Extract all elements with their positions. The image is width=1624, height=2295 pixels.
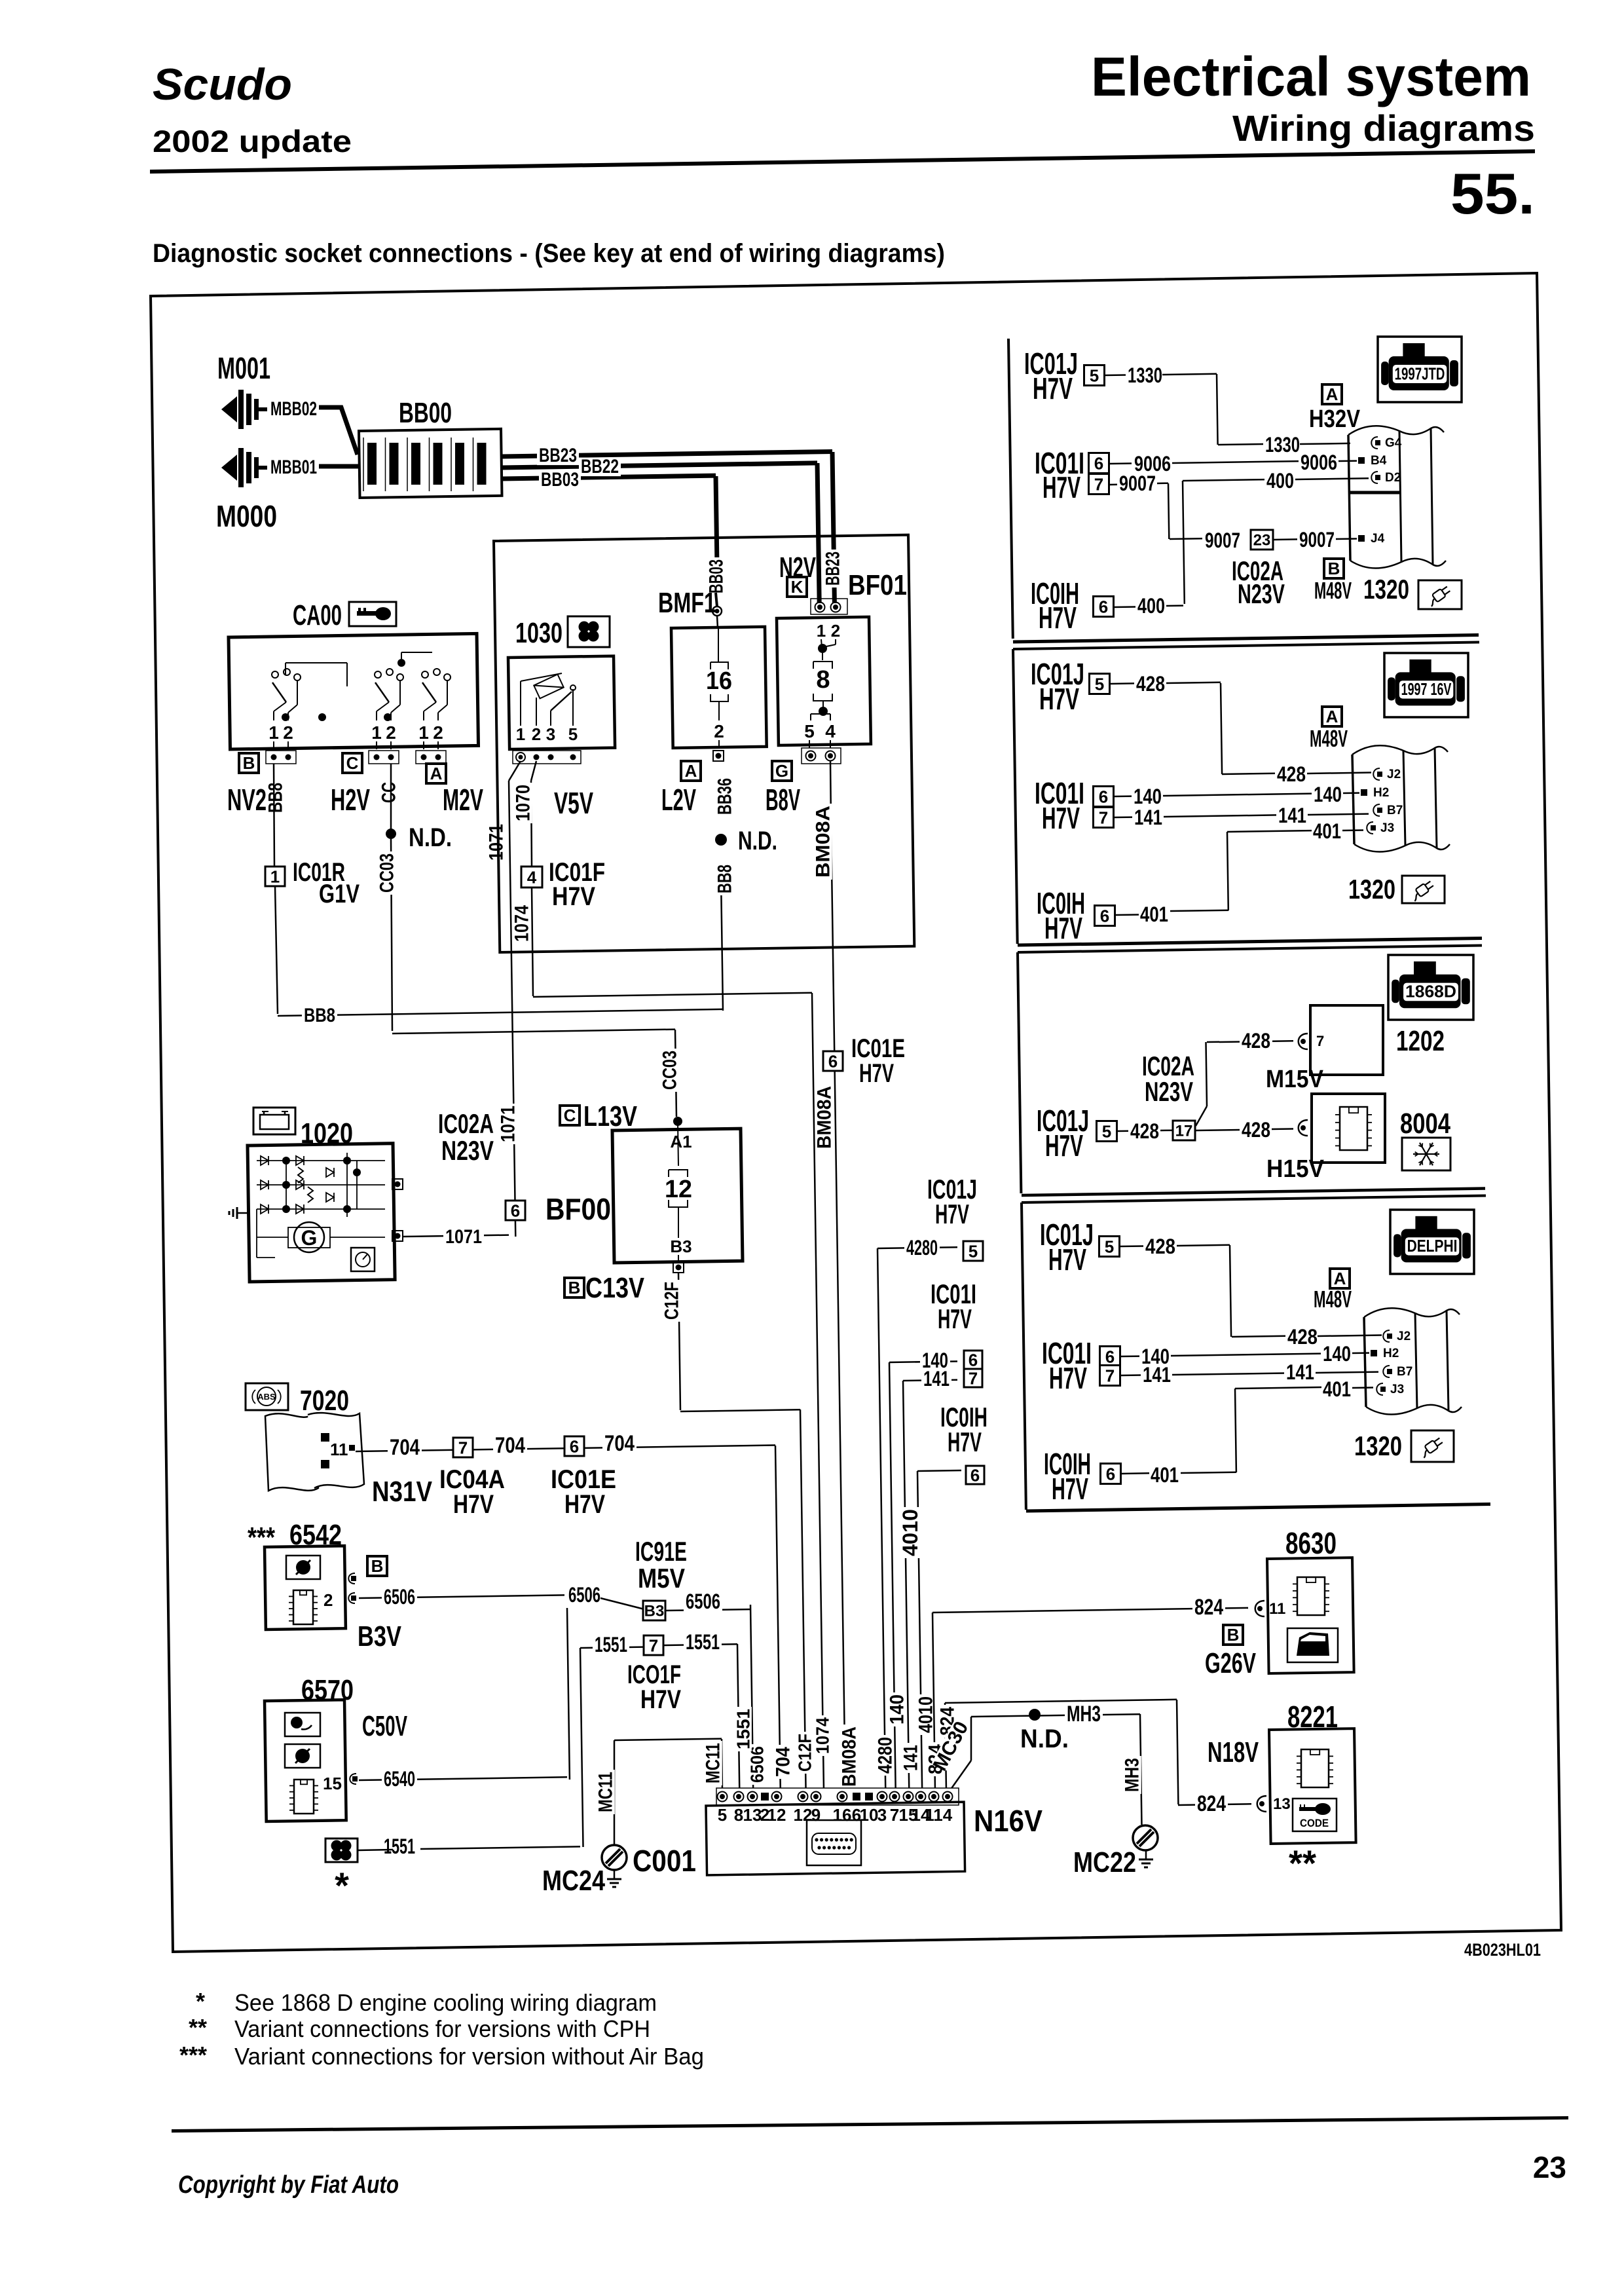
- wire MH3: [971, 1714, 1140, 1717]
- label BB23: [537, 447, 579, 466]
- fan icon 1551: [325, 1838, 358, 1862]
- svg-text:MH3: MH3: [1122, 1758, 1143, 1792]
- pin J3 box2: [1367, 822, 1373, 834]
- clip pin 13 8221: [1257, 1796, 1266, 1812]
- svg-text:7: 7: [1105, 1366, 1115, 1385]
- wire 6506: [359, 1595, 564, 1598]
- svg-text:1330: 1330: [1128, 364, 1162, 387]
- svg-text:140: 140: [1314, 783, 1342, 806]
- wire 824 label: [1192, 1597, 1225, 1618]
- svg-text:1320: 1320: [1363, 574, 1409, 605]
- svg-text:401: 401: [1140, 903, 1168, 926]
- wire CC03 mid label: [661, 1049, 679, 1092]
- wire 6506 label: [382, 1588, 417, 1607]
- wire BB8 label: [267, 781, 285, 815]
- svg-text:1070: 1070: [513, 785, 534, 821]
- svg-text:L13V: L13V: [583, 1100, 638, 1132]
- svg-text:Copyright by Fiat Auto: Copyright by Fiat Auto: [178, 2171, 399, 2199]
- svg-text:11: 11: [330, 1440, 348, 1459]
- wire C12F label: [663, 1280, 681, 1322]
- svg-text:H15V: H15V: [1266, 1155, 1325, 1183]
- svg-text:H7V: H7V: [1052, 1472, 1088, 1506]
- relay 1030 box: [508, 656, 615, 749]
- clip 6570: [350, 1774, 356, 1784]
- wire 1551 bottom label: [735, 1707, 752, 1751]
- svg-text:6506: 6506: [568, 1583, 600, 1607]
- svg-text:H2: H2: [1373, 786, 1389, 800]
- svg-text:1: 1: [371, 722, 382, 743]
- svg-text:**: **: [1289, 1842, 1316, 1884]
- wire 4010: [917, 1470, 961, 1471]
- svg-text:V5V: V5V: [554, 786, 593, 820]
- svg-text:BF01: BF01: [848, 569, 907, 601]
- pin 7 IC04A: [453, 1438, 473, 1457]
- svg-text:1071: 1071: [486, 824, 507, 861]
- wire 1551 label: [593, 1635, 629, 1655]
- header rule: [150, 149, 1535, 174]
- svg-text:2: 2: [831, 621, 840, 641]
- svg-text:H7V: H7V: [938, 1303, 972, 1334]
- svg-text:CC03: CC03: [659, 1051, 681, 1090]
- wire 401 label2 box2: [1138, 905, 1170, 925]
- svg-text:704: 704: [390, 1435, 420, 1460]
- key icon: [349, 602, 396, 626]
- svg-text:4: 4: [825, 721, 836, 741]
- svg-text:*: *: [196, 1988, 205, 2015]
- wire BB8: [278, 1009, 723, 1016]
- wire 9007: [1117, 474, 1158, 494]
- svg-text:Variant connections for versio: Variant connections for version without …: [234, 2043, 704, 2070]
- IC chip icon 8630: [1297, 1577, 1325, 1615]
- wire BB03 vertical label: [707, 557, 726, 595]
- wire 824 to 8221: [945, 1703, 946, 1791]
- svg-text:6506: 6506: [747, 1746, 767, 1783]
- ignition switch box: [229, 633, 479, 749]
- svg-text:N.D.: N.D.: [1020, 1725, 1069, 1753]
- svg-text:H7V: H7V: [1049, 1361, 1087, 1395]
- svg-text:B4: B4: [1371, 454, 1387, 468]
- immobilizer 8221 box: [1269, 1728, 1356, 1844]
- svg-text:6: 6: [969, 1350, 978, 1370]
- svg-text:*: *: [335, 1865, 349, 1906]
- svg-text:***: ***: [248, 1521, 276, 1554]
- wire 704 label2: [493, 1436, 527, 1457]
- wire BB8 label: [302, 1007, 337, 1026]
- wire 140 label2 box4: [1321, 1345, 1353, 1364]
- wire 140: [889, 1362, 957, 1363]
- svg-text:H7V: H7V: [859, 1059, 894, 1088]
- svg-text:Diagnostic socket connections: Diagnostic socket connections - (See key…: [153, 239, 945, 268]
- wire 9006: [1132, 455, 1173, 474]
- pin 17: [1173, 1121, 1195, 1140]
- fuse box BF01 box: [777, 617, 871, 745]
- pin 6 IC01I box1: [1089, 453, 1109, 474]
- svg-text:400: 400: [1266, 469, 1294, 493]
- svg-text:J3: J3: [1390, 1383, 1404, 1396]
- pin 6 IC01E 704: [564, 1436, 584, 1456]
- svg-text:2: 2: [714, 721, 724, 741]
- svg-text:6: 6: [1099, 597, 1108, 616]
- svg-text:H7V: H7V: [1044, 911, 1082, 945]
- svg-text:N.D.: N.D.: [738, 827, 777, 855]
- wire 1074 bottom label: [814, 1715, 831, 1756]
- svg-text:428: 428: [1242, 1029, 1270, 1053]
- alternator box: [248, 1144, 395, 1282]
- wire 6506 label3: [684, 1592, 722, 1612]
- wire 4010 label: [900, 1507, 919, 1558]
- pin D2: [1371, 472, 1378, 483]
- wire BB8 label 2: [716, 863, 734, 895]
- svg-text:5: 5: [1102, 1121, 1111, 1141]
- wire 9007 label3: [1297, 531, 1337, 550]
- engine bay box: [494, 535, 914, 952]
- wire 824 pad4 label: [938, 1705, 957, 1738]
- wire BM08A: [830, 761, 831, 822]
- wire 141 box4: [1141, 1366, 1173, 1385]
- svg-text:1: 1: [817, 621, 826, 641]
- engine icon 1997 16V: [1384, 653, 1468, 717]
- wire 1071 label: [443, 1228, 484, 1247]
- panel box 1997JTD border: [1008, 339, 1013, 639]
- svg-text:401: 401: [1151, 1463, 1179, 1487]
- svg-text:23: 23: [1533, 2150, 1566, 2184]
- generator G: [294, 1222, 324, 1252]
- pin G4: [1371, 437, 1378, 449]
- svg-text:4010: 4010: [898, 1509, 922, 1556]
- svg-text:CA00: CA00: [293, 599, 342, 631]
- svg-text:H2V: H2V: [331, 783, 370, 817]
- svg-text:ABS: ABS: [257, 1392, 276, 1402]
- svg-text:H32V: H32V: [1309, 405, 1361, 433]
- svg-text:704: 704: [495, 1433, 525, 1458]
- pin J2 box2: [1373, 768, 1380, 780]
- svg-text:M48V: M48V: [1314, 577, 1352, 604]
- earth point arrow M000: [221, 455, 237, 481]
- snowflake icon: [1402, 1138, 1450, 1170]
- svg-text:55.: 55.: [1450, 161, 1535, 226]
- svg-text:6: 6: [1099, 787, 1108, 806]
- connector A M48V box2: [1322, 707, 1342, 726]
- svg-text:6: 6: [1100, 906, 1109, 925]
- svg-text:H7V: H7V: [935, 1199, 969, 1229]
- connector A BMF1: [681, 761, 701, 781]
- diagnostic socket C001 box: [706, 1802, 965, 1875]
- svg-text:C001: C001: [633, 1844, 696, 1878]
- svg-text:1997JTD: 1997JTD: [1395, 364, 1445, 383]
- wire CC: [390, 764, 392, 829]
- svg-text:7: 7: [649, 1635, 658, 1655]
- svg-text:4280: 4280: [906, 1236, 938, 1259]
- svg-text:16: 16: [833, 1805, 852, 1825]
- svg-text:704: 704: [773, 1747, 794, 1777]
- pin 7 IC01I box4: [1100, 1366, 1120, 1386]
- pin 7 IC01I: [964, 1369, 982, 1387]
- svg-text:BF00: BF00: [545, 1192, 611, 1226]
- pin J2 box4: [1383, 1330, 1390, 1342]
- control unit 6570 box: [265, 1700, 346, 1821]
- svg-text:5: 5: [1105, 1237, 1114, 1256]
- svg-text:1320: 1320: [1348, 874, 1395, 905]
- footer rule: [172, 2116, 1568, 2133]
- svg-text:Electrical system: Electrical system: [1091, 46, 1531, 107]
- engine icon DELPHI: [1390, 1210, 1474, 1274]
- svg-text:428: 428: [1145, 1235, 1175, 1258]
- pin 5 IC01J box1: [1084, 365, 1105, 386]
- svg-text:428: 428: [1287, 1325, 1318, 1349]
- pin 7 IC01F: [644, 1635, 663, 1655]
- pin 6 IC0IH: [966, 1466, 984, 1484]
- svg-text:H7V: H7V: [640, 1685, 681, 1714]
- svg-text:1330: 1330: [1265, 433, 1300, 457]
- svg-text:13: 13: [1273, 1795, 1291, 1813]
- svg-text:1551: 1551: [686, 1630, 720, 1654]
- connector B M48V: [1324, 559, 1344, 578]
- svg-text:12: 12: [767, 1805, 786, 1825]
- svg-text:BM08A: BM08A: [814, 1086, 836, 1149]
- svg-text:141: 141: [923, 1367, 950, 1390]
- wire 141: [903, 1380, 957, 1381]
- svg-text:4280: 4280: [875, 1737, 896, 1774]
- pin 6 IC01E: [823, 1051, 843, 1071]
- svg-text:16: 16: [706, 667, 732, 695]
- pin H2 box2: [1361, 789, 1367, 796]
- svg-text:H7V: H7V: [1048, 1242, 1086, 1277]
- wire 824 to 8630: [932, 1613, 935, 1791]
- pin 1 IC01R: [265, 867, 285, 886]
- svg-text:NV2: NV2: [227, 783, 267, 817]
- svg-text:5: 5: [718, 1805, 727, 1825]
- svg-text:**: **: [189, 2014, 207, 2041]
- clip pin 7 1202: [1299, 1034, 1308, 1049]
- svg-text:H7V: H7V: [1033, 371, 1073, 405]
- label BB22: [579, 458, 621, 477]
- wire 401 box4: [1321, 1380, 1353, 1400]
- svg-text:C50V: C50V: [362, 1710, 407, 1742]
- wire 704 bottom label: [774, 1745, 792, 1779]
- svg-text:Variant connections for versio: Variant connections for versions with CP…: [234, 2015, 650, 2042]
- svg-text:6: 6: [1094, 453, 1103, 473]
- svg-text:1320: 1320: [1354, 1430, 1402, 1461]
- junction N.D. CC03: [386, 829, 396, 839]
- svg-text:BB8: BB8: [265, 783, 287, 813]
- wire 6540 label: [382, 1770, 417, 1789]
- wire 141 box2: [1132, 808, 1164, 828]
- wire 9007 label2: [1203, 531, 1242, 551]
- wire 141 label2 box4: [1284, 1363, 1316, 1383]
- wire 1330: [1126, 366, 1164, 386]
- svg-text:9006: 9006: [1301, 451, 1337, 474]
- svg-text:C13V: C13V: [585, 1272, 645, 1304]
- wire 1330 label2: [1263, 436, 1302, 455]
- svg-text:2: 2: [433, 722, 443, 743]
- svg-text:A: A: [1326, 707, 1338, 726]
- wire 141 label: [921, 1370, 951, 1389]
- svg-text:N31V: N31V: [372, 1476, 433, 1508]
- svg-text:1551: 1551: [733, 1709, 754, 1749]
- svg-text:9007: 9007: [1299, 528, 1335, 551]
- svg-text:BB36: BB36: [714, 778, 736, 815]
- diagnostic socket C001 pads: [716, 1788, 959, 1805]
- svg-text:CC03: CC03: [377, 853, 398, 893]
- svg-text:See 1868 D engine cooling wiri: See 1868 D engine cooling wiring diagram: [234, 1989, 657, 2016]
- svg-text:N23V: N23V: [1238, 578, 1285, 609]
- wire MC11 label: [704, 1741, 722, 1785]
- svg-text:141: 141: [1143, 1363, 1171, 1387]
- svg-text:B: B: [568, 1278, 581, 1297]
- pin 6 IC0IH box2: [1095, 906, 1115, 926]
- wire 141 label2 box2: [1276, 806, 1308, 826]
- svg-text:428: 428: [1136, 672, 1165, 696]
- wire CC03: [378, 851, 396, 895]
- svg-text:MBB02: MBB02: [270, 398, 317, 420]
- svg-text:BB23: BB23: [822, 551, 844, 586]
- wire MC11: [722, 1739, 722, 1791]
- pin 23: [1251, 530, 1273, 550]
- svg-text:704: 704: [604, 1431, 635, 1456]
- wire 6506 bottom label: [748, 1744, 766, 1785]
- wire 1071 label: [487, 822, 506, 863]
- svg-text:140: 140: [1134, 785, 1162, 808]
- wire CC03 horizontal: [392, 1030, 675, 1034]
- fuse box BF00 box: [612, 1129, 743, 1263]
- svg-text:C: C: [346, 753, 359, 773]
- ABS icon: [246, 1383, 288, 1410]
- svg-text:DELPHI: DELPHI: [1407, 1237, 1458, 1256]
- svg-text:5: 5: [969, 1241, 978, 1261]
- svg-text:824: 824: [1194, 1595, 1223, 1620]
- wire 1070: [531, 761, 536, 781]
- connector A: [426, 764, 446, 783]
- svg-text:A: A: [430, 764, 443, 783]
- svg-text:H7V: H7V: [1045, 1129, 1083, 1163]
- svg-text:C12F: C12F: [795, 1734, 815, 1772]
- svg-text:MH3: MH3: [1067, 1702, 1101, 1726]
- svg-text:8004: 8004: [1400, 1108, 1450, 1140]
- maxi fuse BMF1 box: [671, 627, 767, 748]
- pad BMF1 input: [712, 606, 722, 616]
- wire 428 label2 box2: [1275, 765, 1308, 785]
- wire 6540: [359, 1777, 567, 1780]
- pin J4: [1358, 535, 1365, 542]
- svg-text:J2: J2: [1387, 768, 1401, 781]
- ground alternator: [237, 1212, 248, 1214]
- wire MH3 vertical label: [1123, 1756, 1141, 1794]
- svg-text:G1V: G1V: [319, 880, 360, 908]
- svg-text:C12F: C12F: [661, 1282, 683, 1320]
- svg-text:***: ***: [179, 2042, 207, 2068]
- connector K: [787, 577, 807, 597]
- pin B3 IC91E: [643, 1601, 665, 1620]
- alternator terminals: [392, 1179, 403, 1189]
- svg-text:B: B: [371, 1556, 384, 1576]
- wire BB36: [716, 776, 734, 817]
- door icon: [1287, 1628, 1338, 1662]
- svg-text:CC: CC: [378, 782, 400, 803]
- panel box 1868D border: [1018, 946, 1482, 953]
- wire 140 box4: [1139, 1347, 1172, 1367]
- wire BM08A label: [814, 804, 832, 880]
- svg-text:7: 7: [969, 1368, 978, 1388]
- wire CC label: [380, 780, 398, 805]
- clip pin 11 8630: [1255, 1601, 1264, 1616]
- svg-text:15: 15: [323, 1774, 342, 1793]
- junction N.D. BB8: [715, 834, 727, 846]
- plug icon box2: [1402, 876, 1445, 903]
- battery icon: [253, 1108, 295, 1134]
- svg-text:J4: J4: [1371, 532, 1385, 546]
- svg-text:G4: G4: [1385, 436, 1402, 450]
- wire 428 label2 box3: [1240, 1121, 1272, 1140]
- svg-text:N23V: N23V: [441, 1135, 494, 1166]
- wire 140 label: [920, 1351, 950, 1371]
- svg-text:H7V: H7V: [948, 1427, 982, 1457]
- connector G: [772, 761, 792, 781]
- svg-text:2: 2: [386, 722, 396, 743]
- svg-text:B7: B7: [1397, 1365, 1412, 1379]
- pin 6 IC01I box4: [1100, 1347, 1120, 1367]
- wire 401 box2: [1311, 822, 1343, 842]
- svg-text:M000: M000: [216, 499, 277, 533]
- svg-text:8630: 8630: [1285, 1526, 1337, 1560]
- svg-text:G: G: [301, 1226, 318, 1250]
- svg-text:6540: 6540: [384, 1767, 415, 1791]
- svg-text:IC91E: IC91E: [635, 1536, 687, 1567]
- key CODE icon: [1293, 1799, 1337, 1831]
- connector A H32V: [1322, 384, 1342, 404]
- IC chip icon 6542: [293, 1590, 313, 1624]
- svg-text:N.D.: N.D.: [409, 823, 452, 852]
- plug icon box1: [1418, 580, 1462, 609]
- svg-text:H7V: H7V: [1039, 601, 1077, 635]
- svg-text:6: 6: [511, 1201, 520, 1220]
- svg-text:BB00: BB00: [399, 397, 452, 429]
- wire BB23 vertical label: [824, 550, 842, 588]
- svg-text:8: 8: [734, 1805, 743, 1825]
- svg-text:B: B: [1227, 1625, 1240, 1645]
- svg-text:B: B: [1328, 559, 1340, 578]
- svg-text:M48V: M48V: [1314, 1286, 1352, 1313]
- svg-text:A1: A1: [670, 1132, 692, 1151]
- wire BB03: [501, 476, 716, 479]
- svg-text:M5V: M5V: [638, 1563, 685, 1594]
- svg-text:M2V: M2V: [443, 783, 483, 817]
- pin 7 IC01I box2: [1094, 808, 1114, 828]
- svg-text:N18V: N18V: [1208, 1736, 1259, 1768]
- svg-text:MBB01: MBB01: [270, 457, 317, 478]
- wire 1551 label2: [684, 1633, 722, 1652]
- pin 5 IC01J box2: [1090, 674, 1110, 694]
- svg-text:401: 401: [1323, 1377, 1351, 1401]
- svg-text:B7: B7: [1387, 804, 1403, 817]
- svg-text:7: 7: [890, 1805, 899, 1825]
- svg-text:1: 1: [516, 724, 525, 744]
- wire 428 box2: [1134, 675, 1167, 694]
- svg-text:H7V: H7V: [552, 882, 595, 911]
- svg-text:2: 2: [532, 724, 541, 744]
- svg-text:6: 6: [1106, 1464, 1115, 1483]
- svg-text:1551: 1551: [384, 1835, 415, 1858]
- svg-text:1: 1: [268, 722, 279, 743]
- wire 400 label2: [1135, 597, 1167, 616]
- svg-text:J2: J2: [1397, 1330, 1411, 1343]
- pin B4: [1358, 457, 1365, 464]
- svg-text:H7V: H7V: [564, 1490, 605, 1519]
- svg-text:B3: B3: [644, 1603, 665, 1620]
- svg-text:17: 17: [1175, 1123, 1193, 1140]
- pin 5 IC01J: [963, 1241, 983, 1261]
- wire 1071 to alternator: [403, 1235, 509, 1237]
- svg-text:H7V: H7V: [453, 1490, 494, 1519]
